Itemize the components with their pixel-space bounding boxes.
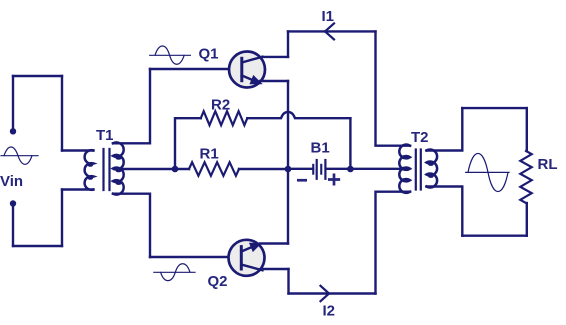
- node Vin top terminal: [10, 128, 16, 134]
- wire R1 to node B: [239, 168, 288, 170]
- wire Vin loop right upper: [61, 76, 63, 151]
- wire load loop right lower: [526, 203, 528, 236]
- arrow I1 current left: [325, 23, 334, 39]
- svg-text:I2: I2: [323, 303, 336, 320]
- wire battery to node C: [327, 168, 351, 170]
- transistor Q2 emitter stroke: [241, 244, 258, 251]
- svg-text:T1: T1: [96, 127, 114, 144]
- resistor RL: [520, 151, 531, 203]
- transformer T2 secondary winding: [427, 150, 438, 188]
- wire T2 secondary top to load loop: [427, 108, 463, 150]
- wire load loop right upper: [526, 108, 528, 151]
- wire emitter column node B to Q2: [287, 169, 289, 244]
- wire Q2 collector drop to I2: [287, 269, 289, 294]
- svg-text:T2: T2: [411, 129, 429, 146]
- transistor Q2 collector stroke: [241, 265, 262, 271]
- transistor Q2 emitter arrow: [250, 243, 261, 251]
- wire Q2 collector: [262, 268, 289, 270]
- sine annotation at Q1 base: [150, 46, 191, 64]
- wire Q1 collector riser to I1: [287, 31, 289, 57]
- wire stub to T1 primary bottom: [62, 188, 93, 190]
- label B1 plus: [329, 175, 339, 184]
- wire Vin loop top: [13, 75, 62, 77]
- transistor Q2 base bar: [240, 247, 243, 269]
- node A junction dot: [172, 166, 179, 173]
- transformer T1 secondary winding: [113, 142, 124, 194]
- svg-text:I1: I1: [322, 8, 335, 25]
- wire T1 secondary bottom to Q2 base riser: [113, 194, 150, 257]
- transistor Q1 emitter stroke: [242, 76, 259, 83]
- wire Q2 emitter: [260, 242, 288, 244]
- sine annotation at Q2 base (inverted): [154, 264, 195, 281]
- battery B1: [312, 159, 326, 180]
- transformer T1 core: [104, 149, 110, 190]
- wire Q2 base: [150, 256, 240, 258]
- wire node C to T2 center tap: [350, 168, 404, 170]
- wire node B to battery: [288, 168, 313, 170]
- node B junction dot: [285, 166, 292, 173]
- svg-text:R1: R1: [200, 146, 219, 163]
- svg-text:RL: RL: [538, 156, 558, 173]
- wire stub to T1 primary top: [62, 149, 93, 151]
- wire T1 secondary top to Q1 base riser: [113, 69, 150, 143]
- wire Vin loop bottom: [13, 245, 62, 247]
- wire node A to R1: [175, 168, 189, 170]
- wire Vin loop right lower: [61, 190, 63, 247]
- wire I2 rail: [289, 292, 376, 294]
- wire R2 hop over emitter column: [247, 112, 350, 118]
- svg-text:Q2: Q2: [208, 273, 228, 290]
- wire I1 rail: [288, 30, 376, 32]
- wire T2 secondary bottom to load loop: [427, 187, 463, 236]
- svg-text:Q1: Q1: [199, 46, 219, 63]
- wire I1 drop to T2 primary top: [376, 31, 411, 145]
- transformer T2 core: [416, 150, 421, 190]
- resistor R2: [201, 111, 248, 125]
- resistor R1: [189, 162, 239, 176]
- wire R2 drop to node C: [349, 118, 351, 169]
- wire T1 center tap to node A: [114, 168, 175, 170]
- svg-text:R2: R2: [211, 97, 230, 114]
- wire Q1 collector: [262, 56, 288, 58]
- transformer T1 primary winding: [85, 150, 94, 190]
- sine annotation at load RL: [466, 153, 509, 191]
- wire Vin left upper: [12, 76, 14, 128]
- source Vin sine annotation: [1, 147, 38, 164]
- transistor Q1 collector stroke: [242, 57, 263, 63]
- node C junction dot: [347, 166, 354, 173]
- transistor Q2: [229, 240, 265, 276]
- wire emitter column Q1 to node B: [287, 81, 289, 169]
- svg-text:Vin: Vin: [0, 173, 23, 190]
- transistor Q1 emitter arrow: [250, 76, 261, 84]
- wire Q1 base: [150, 68, 240, 70]
- transistor Q1: [229, 52, 265, 88]
- wire load loop bottom rail: [462, 234, 527, 236]
- transistor Q1 base bar: [240, 58, 243, 80]
- wire Q1 emitter: [260, 80, 288, 82]
- wire load loop top rail: [462, 107, 527, 109]
- node Vin bottom terminal: [10, 200, 16, 206]
- label B1 minus: [297, 179, 307, 182]
- wire node A riser to R2: [175, 118, 201, 169]
- wire Vin left lower: [12, 207, 14, 246]
- arrow I2 current right: [321, 286, 330, 301]
- wire I2 riser to T2 primary bottom: [376, 192, 411, 294]
- transformer T2 primary winding: [399, 145, 410, 193]
- svg-text:B1: B1: [311, 140, 330, 157]
